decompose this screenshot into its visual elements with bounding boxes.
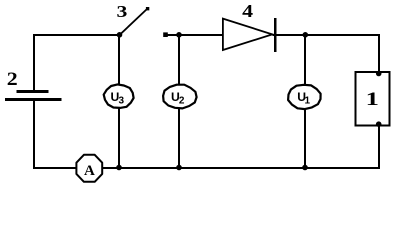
- svg-text:2: 2: [7, 69, 18, 89]
- wire: U3 branch top: [118, 35, 120, 85]
- node: box 1 top terminal: [376, 71, 382, 77]
- svg-text:3: 3: [116, 3, 127, 21]
- wire: U3 branch bottom: [118, 107, 120, 168]
- svg-text:1: 1: [366, 88, 379, 109]
- switch 3 open contact: [163, 32, 168, 37]
- wire: U1 branch top: [304, 35, 306, 85]
- wire: left top (battery to switch node): [34, 35, 120, 90]
- battery 2 top plate: [17, 90, 49, 93]
- svg-text:3: 3: [119, 95, 125, 106]
- node: bottom junction below U3: [116, 165, 122, 171]
- svg-text:1: 1: [305, 95, 311, 106]
- node: bottom junction below U1: [302, 165, 308, 171]
- voltmeter U2: [163, 85, 197, 109]
- label 4: [242, 2, 253, 21]
- resistor 1 (load box): [356, 72, 390, 126]
- diode 4 cathode bar: [274, 18, 276, 52]
- wire: diode cathode to right corner, down to box 1: [272, 35, 379, 72]
- wire: box 1 bottom to bottom rail: [102, 126, 379, 169]
- svg-text:2: 2: [179, 95, 185, 106]
- wire: U1 branch bottom: [304, 108, 306, 168]
- wire: left bottom (battery to ammeter): [34, 100, 78, 168]
- voltmeter U1: [288, 85, 321, 109]
- diode 4 triangle: [223, 19, 272, 50]
- svg-text:4: 4: [242, 2, 253, 21]
- node: switch pivot junction: [117, 32, 123, 38]
- label 2: [7, 69, 18, 89]
- wire: U2 branch bottom: [178, 107, 180, 168]
- ammeter A: [76, 155, 102, 182]
- node: junction above U2: [176, 32, 182, 38]
- switch 3 lever tip dot: [146, 7, 149, 10]
- battery 2 bottom plate: [5, 98, 62, 101]
- node: bottom junction below U2: [176, 165, 182, 171]
- node: junction above U1: [303, 32, 309, 38]
- label 1: [366, 88, 379, 109]
- node: box 1 bottom terminal: [376, 121, 382, 127]
- svg-text:A: A: [84, 163, 95, 179]
- wire: U2 branch top: [178, 35, 180, 85]
- label 3: [116, 3, 127, 21]
- switch 3 lever: [120, 9, 148, 35]
- voltmeter U3: [104, 84, 134, 108]
- wire: contact to diode anode: [168, 34, 223, 36]
